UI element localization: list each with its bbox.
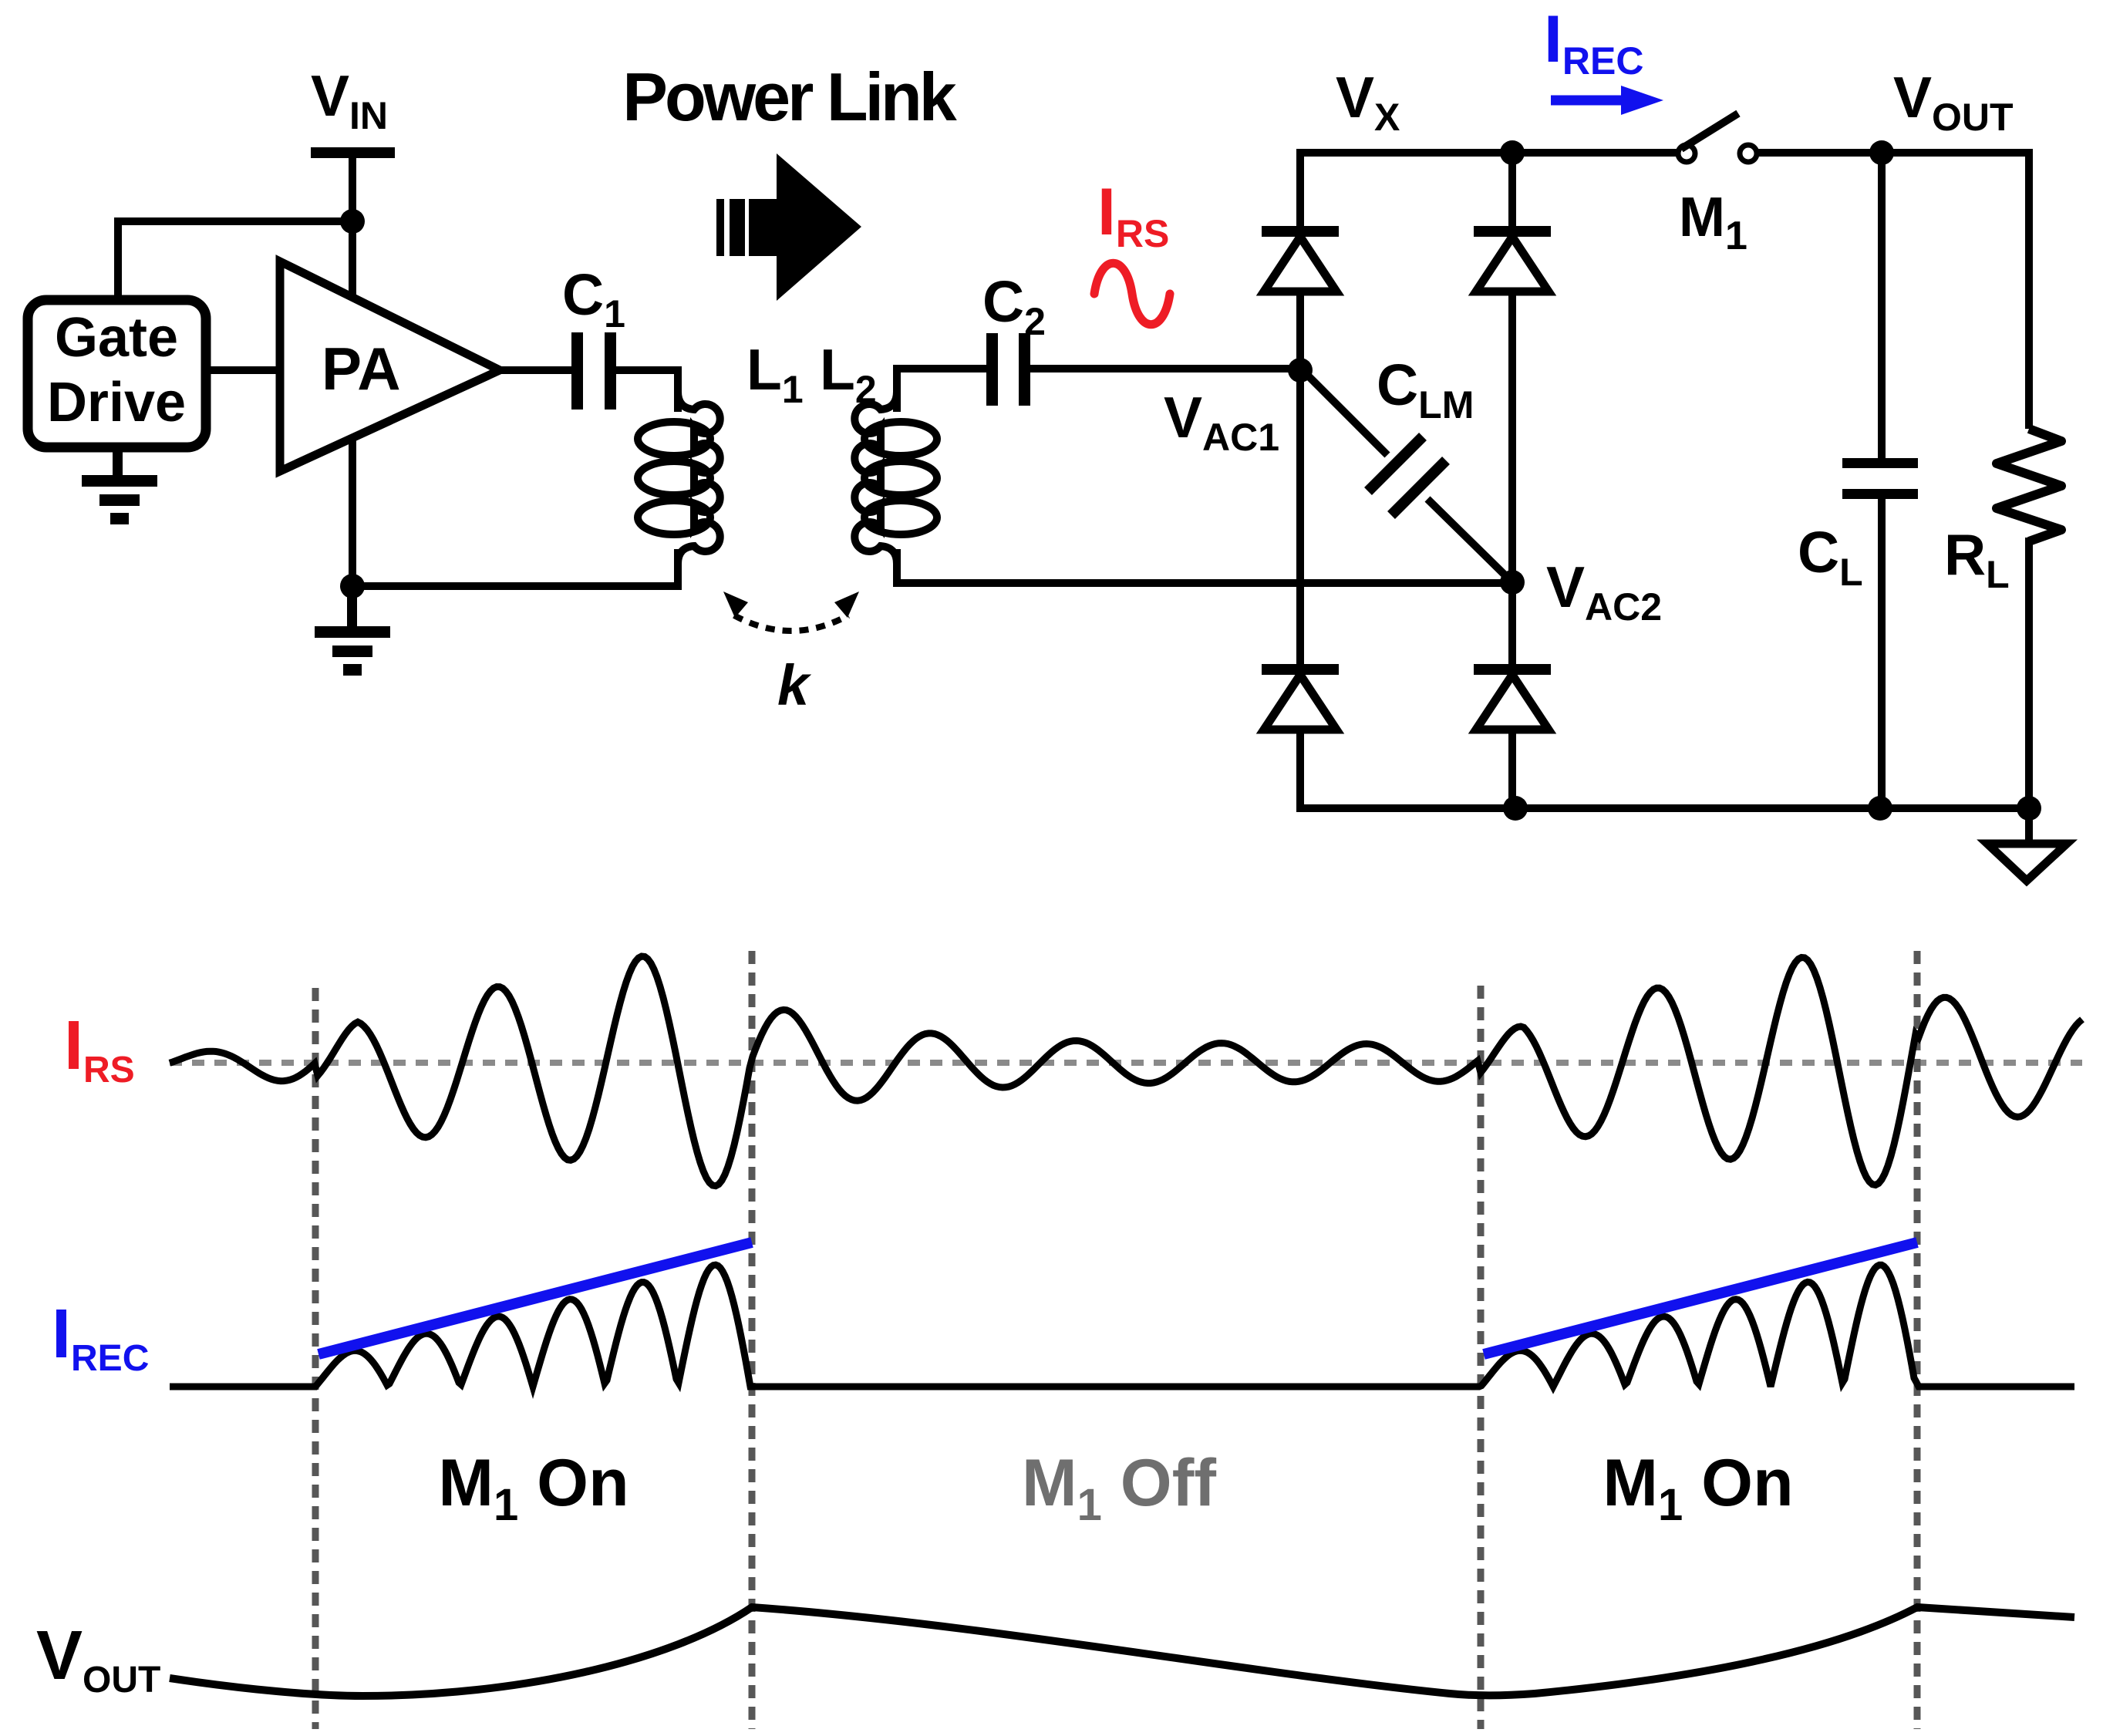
svg-text:k: k bbox=[777, 653, 812, 717]
bridge right branch wire middle bbox=[1508, 292, 1516, 665]
svg-text:Gate: Gate bbox=[55, 307, 178, 369]
node PA ground junction bbox=[340, 574, 365, 598]
svg-text:M1 Off: M1 Off bbox=[1022, 1446, 1216, 1530]
node VAC1 junction bbox=[1288, 358, 1313, 383]
gridline vertical dashed 3 bbox=[1478, 986, 1485, 1729]
capacitor CL bbox=[1842, 458, 1918, 499]
capacitor C2 bbox=[986, 333, 1030, 406]
capacitor CL branch wire top bbox=[1878, 153, 1886, 458]
wire L2 bottom to VAC2 bbox=[897, 549, 1512, 583]
supply VIN bar bbox=[311, 147, 395, 158]
wire gate drive to PA bbox=[206, 366, 280, 374]
resistor RL branch wire bottom bbox=[2025, 538, 2033, 808]
gridline horizontal dashed bbox=[170, 1060, 2082, 1066]
blue IREC arrow bbox=[1551, 96, 1626, 106]
inductor L1 bbox=[638, 422, 710, 456]
svg-text:M1 On: M1 On bbox=[438, 1446, 629, 1530]
gate drive box bbox=[28, 300, 206, 447]
ground below PA bbox=[315, 586, 390, 676]
bridge left branch wire top bbox=[1300, 153, 1679, 227]
wire PA bottom to ground node bbox=[349, 436, 356, 586]
wire ground node to L1 bottom bbox=[352, 549, 678, 586]
gridline vertical dashed 1 bbox=[312, 988, 319, 1729]
red IRS sine icon bbox=[1094, 263, 1170, 325]
resistor RL zigzag bbox=[1997, 429, 2061, 541]
node VIN junction bbox=[340, 209, 365, 234]
wire VIN into PA top bbox=[349, 221, 356, 297]
svg-text:M1 On: M1 On bbox=[1603, 1446, 1793, 1530]
bridge left branch wire middle bbox=[1296, 292, 1304, 665]
ground output triangle bbox=[1987, 844, 2067, 881]
gridline vertical dashed 2 bbox=[749, 951, 756, 1729]
node VX junction bbox=[1500, 140, 1525, 165]
capacitor CLM diagonal bbox=[1303, 370, 1387, 455]
inductor L2 bbox=[864, 422, 937, 456]
node ground junction bbox=[2017, 796, 2041, 821]
svg-text:Power Link: Power Link bbox=[622, 59, 957, 135]
diode D4 bottom-right bbox=[1474, 669, 1551, 730]
svg-text:Drive: Drive bbox=[47, 372, 186, 433]
wire C1 to L1 top bbox=[616, 370, 678, 412]
node rail junction bbox=[1503, 796, 1528, 821]
waveform VOUT bbox=[170, 1607, 2074, 1696]
wire VIN stem bbox=[349, 153, 356, 221]
waveform IRS bbox=[170, 956, 2082, 1186]
ramp IREC envelope 2 bbox=[1484, 1242, 1917, 1354]
capacitor CL branch wire bottom bbox=[1878, 499, 1886, 808]
coupling k dashed arc bbox=[734, 615, 848, 631]
wire C2 to VAC1 bbox=[1030, 365, 1300, 372]
node VAC2 junction bbox=[1500, 570, 1525, 595]
ground output stem bbox=[2025, 808, 2033, 844]
diode D2 top-right bbox=[1474, 231, 1551, 292]
svg-text:PA: PA bbox=[322, 335, 401, 403]
bridge right branch wire bottom bbox=[1508, 730, 1516, 808]
wire L2 top to C2 bbox=[897, 369, 986, 412]
wire PA to C1 bbox=[500, 366, 571, 374]
bridge right branch wire top bbox=[1508, 153, 1516, 227]
gridline vertical dashed 4 bbox=[1914, 951, 1921, 1729]
wire VIN to gate drive bbox=[118, 221, 352, 300]
wire switch to VOUT rail bbox=[1757, 153, 2029, 429]
node CL bottom junction bbox=[1868, 796, 1892, 821]
switch M1 bbox=[1678, 145, 1757, 162]
diode D3 bottom-left bbox=[1262, 669, 1339, 730]
capacitor C1 bbox=[571, 332, 616, 410]
ramp IREC envelope 1 bbox=[318, 1242, 752, 1354]
node VOUT junction bbox=[1869, 140, 1894, 165]
power link arrow bbox=[716, 153, 861, 301]
bridge left branch wire bottom bbox=[1300, 730, 2029, 808]
ground below gate drive bbox=[82, 447, 157, 524]
op-amp PA triangle bbox=[280, 261, 500, 471]
waveform IREC bbox=[170, 1265, 2074, 1387]
diode D1 top-left bbox=[1262, 231, 1339, 292]
